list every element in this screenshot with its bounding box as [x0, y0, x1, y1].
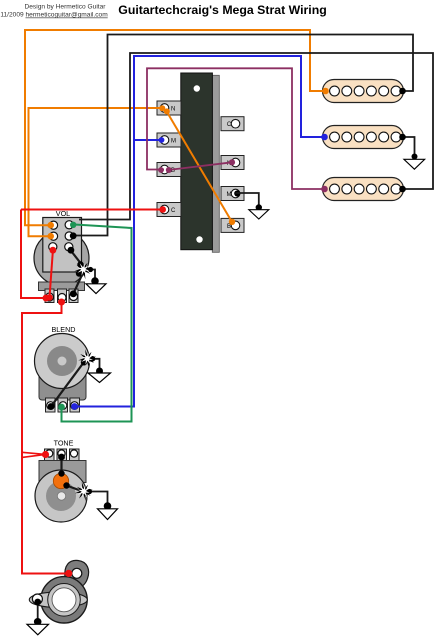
node: switch lug B purple [166, 167, 172, 173]
ground symbol (middle pickup) [404, 154, 425, 170]
middle pickup [323, 126, 404, 149]
node: BLEND lug3 blue [71, 403, 78, 410]
node: TONE lug2 black [58, 454, 65, 461]
node: switch right lug N purple [229, 159, 235, 165]
wire black: BLEND star to ground [87, 359, 100, 370]
node: VOL lug1 red [43, 295, 50, 302]
wire black: BLEND left lug to solder star [51, 358, 87, 407]
node: VOL lug3 black [70, 290, 77, 297]
wire green: VOL hole to BLEND middle lug [62, 225, 132, 422]
switch lug M (left) [157, 133, 181, 147]
wire black: capacitor to solder star [67, 486, 84, 492]
wire black: bridge pickup ground to VOL casing [79, 53, 433, 220]
node: VOL hole orange mid [47, 233, 54, 240]
node: VOL lug1 red b [46, 294, 53, 301]
node: VOL hole red [50, 247, 57, 254]
svg-text:Design by Hermetico Guitar: Design by Hermetico Guitar [25, 4, 107, 11]
svg-text:Guitartechcraig's Mega Strat W: Guitartechcraig's Mega Strat Wiring [118, 3, 327, 17]
node: BLEND lug2 green [58, 404, 65, 411]
switch lug C (left) [157, 203, 181, 217]
node: switch lug B purple b [158, 167, 164, 173]
node: switch right lug B orange [229, 219, 235, 225]
wire red: branch to TONE left lug [22, 452, 46, 457]
node: neck pickup ground [399, 88, 406, 95]
node: TONE lug1 red [42, 451, 49, 458]
switch lug C (right) [221, 117, 244, 131]
wire purple: bridge pickup hot to switch lug B [147, 68, 325, 189]
switch lug B (left) [157, 163, 181, 177]
wire blue: branch to switch lug M [134, 139, 164, 141]
wire black: VOL hole jumper to solder star [71, 251, 84, 268]
capacitor C1 (orange disc) [53, 473, 68, 488]
svg-text:C: C [171, 208, 176, 214]
jack tip lug ear [65, 560, 89, 590]
node: neck pickup hot [322, 88, 329, 95]
wire black: VOL star to ground [85, 270, 95, 281]
wire orange: switch jumper N to B [166, 110, 233, 223]
svg-text:TONE: TONE [54, 439, 74, 448]
output jack body [29, 560, 88, 623]
ground symbol (VOL star) [86, 267, 106, 294]
node: capacitor top black [58, 470, 64, 476]
wire red: VOL middle lug to TONE and jack [22, 302, 69, 574]
switch lug B (right) [221, 218, 244, 232]
svg-text:M: M [171, 139, 176, 145]
jack sleeve blade [29, 592, 87, 608]
node: VOL hole black bottom [68, 247, 75, 254]
node: jack tip red [65, 570, 72, 577]
node: switch lug N orange [159, 105, 165, 111]
wire black: jack sleeve to ground [37, 601, 39, 621]
node: jack sleeve black [34, 599, 41, 606]
ground symbol (jack sleeve) [27, 618, 49, 635]
switch lug M (right) [221, 187, 244, 201]
svg-text:BLEND: BLEND [52, 325, 76, 334]
switch lug N (left) [157, 101, 181, 115]
wire black: VOL right lug to solder star [73, 271, 84, 294]
pickup selector switch body [181, 73, 220, 252]
ground symbol (BLEND star) [81, 356, 111, 383]
wire black: neck pickup ground to VOL hole [73, 35, 413, 236]
node: capacitor out black [63, 482, 69, 488]
wire black: middle pickup ground [403, 137, 415, 155]
solder star on VOL casing [74, 260, 92, 279]
node: VOL hole black mid [70, 232, 77, 239]
bridge pickup [323, 178, 404, 201]
switch lug N (right) [221, 156, 244, 170]
svg-text:11/2009 hermeticoguitar@gmail.: 11/2009 hermeticoguitar@gmail.com [0, 12, 108, 19]
wire red: switch lug C to VOL lug [21, 209, 164, 211]
node: BLEND lug1 black [48, 403, 55, 410]
ground symbol (TONE star) [87, 489, 118, 520]
svg-text:N: N [171, 107, 175, 113]
VOL eyelet holes [49, 221, 57, 229]
wire purple: switch jumper B to N [168, 162, 232, 170]
node: VOL hole orange top [47, 222, 54, 229]
node: switch lug M blue [159, 137, 165, 143]
neck pickup [323, 80, 404, 103]
tone pot TONE body [35, 439, 87, 523]
volume pot VOL body [34, 209, 89, 303]
node: bridge pickup ground [399, 186, 406, 193]
node: switch lug C red [159, 206, 166, 213]
node: middle pickup hot [321, 134, 328, 141]
solder star on BLEND casing [78, 349, 96, 368]
ground symbol (switch lug M) [249, 204, 269, 219]
node: middle pickup ground [399, 134, 406, 141]
wire orange: switch lug N to VOL hole [29, 108, 165, 236]
wire black: switch lug M (right) to ground [236, 193, 259, 206]
wire red: VOL hole to VOL lug jumper [50, 250, 53, 297]
solder star on TONE casing [75, 482, 93, 501]
node: VOL hole green [70, 222, 76, 228]
blend pot BLEND body [35, 325, 90, 412]
svg-text:B: B [227, 224, 231, 230]
wire orange: neck pickup hot to VOL hole [25, 30, 326, 225]
node: switch lug N orange b [164, 108, 170, 114]
node: VOL lug2 red [58, 299, 65, 306]
node: bridge pickup hot [321, 186, 328, 193]
wire black: TONE star to ground [83, 492, 108, 506]
wire blue: middle pickup hot to switch lug M and BLEND [75, 56, 325, 407]
wire black: TONE middle lug to capacitor [60, 456, 62, 474]
